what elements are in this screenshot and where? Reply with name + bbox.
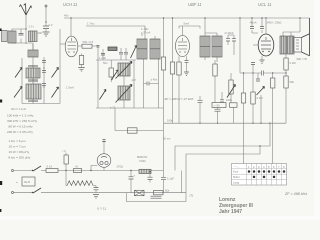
earth branch [45, 7, 47, 32]
svg-text:400: 400 [38, 31, 43, 35]
coil antenna secondary [29, 31, 38, 42]
svg-text:30n ± 1·1mh: 30n ± 1·1mh [11, 107, 27, 111]
node dots tuning [21, 67, 22, 68]
psu outer enclosure [127, 193, 187, 202]
wire tube1 cathode [81, 54, 83, 68]
capacitor 100n [221, 92, 223, 103]
svg-text:—→: —→ [234, 166, 240, 169]
RF coil L1 top [28, 50, 38, 57]
psu inner vertical [181, 171, 183, 193]
wire antenna lead [25, 15, 27, 29]
ground cathode [78, 68, 84, 72]
capacitor antenna series [19, 34, 24, 36]
svg-text:UCH 11: UCH 11 [63, 2, 77, 7]
trimmer arrow osc [131, 46, 137, 59]
capacitor 40n link [147, 82, 149, 86]
capacitor 1n b [42, 71, 46, 73]
switch mains lower [32, 192, 33, 193]
terminal mains upper [12, 170, 14, 172]
detector output branch [272, 73, 274, 164]
resistor cathode [79, 56, 83, 65]
wire osc left [97, 60, 99, 108]
svg-text:Lang: Lang [233, 180, 239, 184]
svg-text:8000/7Ω: 8000/7Ω [137, 155, 147, 159]
oscillator coil Lb [118, 86, 130, 100]
svg-text:80 W = 0·15 mHy: 80 W = 0·15 mHy [9, 125, 34, 129]
core marks L2 [28, 66, 38, 81]
svg-text:± 27mA: ± 27mA [141, 31, 150, 35]
svg-text:1,1µF: 1,1µF [167, 177, 174, 181]
svg-text:2·3: 2·3 [49, 23, 53, 27]
svg-text:240V / 23kΩ: 240V / 23kΩ [267, 21, 282, 25]
resistor osc grid [109, 68, 113, 77]
svg-text:UCL 11: UCL 11 [258, 2, 272, 7]
wire anode bus y18 [64, 17, 310, 19]
wire AVC y73 [240, 72, 286, 74]
svg-text:48mA: 48mA [250, 21, 257, 25]
RF coil L3 [26, 84, 41, 99]
speaker [294, 18, 310, 56]
fuse 0.1A [46, 169, 58, 173]
ground mains [93, 195, 99, 199]
choke field coil [139, 169, 151, 173]
nested link bus [115, 108, 164, 131]
B+ rail x286 [285, 54, 287, 123]
tube U2 UBF11 [176, 35, 190, 56]
antenna [20, 4, 32, 16]
wire mains upper [14, 170, 164, 172]
core marks L3 [28, 82, 38, 102]
IF transformer 2 b [212, 36, 222, 57]
svg-text:100 kHz = 1·2 mHy: 100 kHz = 1·2 mHy [7, 114, 34, 118]
resistor rail163 [161, 57, 165, 70]
wire coupling loop [12, 29, 33, 50]
wire IF2 top [204, 18, 206, 36]
wire osc bottom bus [96, 107, 164, 109]
wire tuning right [43, 57, 45, 104]
svg-text:0·2M: 0·2M [290, 61, 297, 65]
svg-text:500 / 2·5: 500 / 2·5 [83, 40, 94, 44]
svg-text:Mittel: Mittel [233, 175, 240, 179]
wire tube1 anode right [78, 45, 98, 47]
svg-text:(7): (7) [190, 194, 194, 198]
IF transformer 1 b [150, 39, 160, 59]
svg-text:≈: ≈ [16, 181, 18, 185]
wire IF1 stubs [142, 34, 155, 40]
wire IF1 secondary down a [143, 59, 145, 108]
wire tube3 anode [265, 18, 267, 34]
wire [32, 44, 34, 104]
capacitor 3nF branch [199, 96, 201, 123]
svg-text:0·1A: 0·1A [47, 165, 53, 169]
wire lamp branch [91, 166, 97, 171]
box voltage selector [22, 177, 35, 186]
svg-text:10 m = 7 µm: 10 m = 7 µm [9, 145, 27, 149]
svg-text:16 W = 88 µHy: 16 W = 88 µHy [9, 150, 30, 154]
core arrow La [116, 62, 133, 79]
wire tube2 anode top [182, 26, 184, 36]
trimmer arrow right 2 [52, 87, 59, 98]
switch contact mid [112, 70, 118, 79]
capacitor screen b [261, 18, 263, 33]
svg-text:8 km = 200 µHy: 8 km = 200 µHy [9, 156, 31, 160]
svg-text:5mA: 5mA [184, 22, 190, 26]
band switch table [232, 164, 287, 186]
svg-text:1·7mc: 1·7mc [87, 22, 95, 26]
node dots bus123 [252, 123, 253, 124]
svg-text:⊃ 50: ⊃ 50 [214, 104, 220, 108]
capacitor AVC series [262, 71, 264, 76]
resistor 500 [82, 44, 92, 48]
capacitor electrolytic a [130, 171, 132, 193]
capacitor tube2 bypass [186, 56, 188, 60]
svg-text:720Ω: 720Ω [139, 159, 146, 163]
wire lamp top [103, 140, 105, 171]
resistor tube2 cathode [177, 62, 181, 75]
connector box left edge [2, 31, 8, 42]
resistor B+ upper [284, 58, 288, 70]
svg-text:100n: 100n [226, 98, 232, 102]
capacitor screen a [252, 18, 258, 33]
oscillator coil La [118, 63, 130, 76]
wire left rail x60 [59, 29, 61, 104]
resistor diode load [251, 92, 255, 104]
wire IF2 stubs [205, 57, 217, 62]
capacitor 1n a [42, 61, 46, 63]
svg-text:ZF = 468 kHz: ZF = 468 kHz [284, 192, 307, 196]
coil antenna primary [8, 31, 16, 43]
trimmer arrow right 1 [52, 68, 59, 78]
ground bus y123 [164, 122, 287, 124]
node AVC [252, 72, 253, 73]
capacitor det [257, 73, 259, 79]
svg-text:270Ω: 270Ω [117, 164, 124, 168]
IF transformer 2 a [200, 36, 210, 57]
svg-text:2×10nF: 2×10nF [225, 31, 235, 35]
wire osc right [124, 60, 134, 108]
svg-text:900 / 7Ω: 900 / 7Ω [297, 57, 307, 61]
resistor 960 box X [135, 190, 145, 195]
resistor rail172 [170, 62, 174, 74]
table dots row Kurz [248, 170, 286, 173]
node antenna tap [25, 28, 26, 29]
RF coil L2 [26, 68, 40, 78]
svg-text:Kurz: Kurz [233, 170, 239, 174]
resistor 2 ohm [154, 191, 164, 195]
resistor osc dark [108, 47, 117, 51]
svg-text:160n: 160n [167, 119, 173, 123]
IF transformer 1 a [137, 39, 147, 59]
AVC rail x240 [239, 18, 241, 73]
capacitor series bottom [217, 108, 219, 124]
wire tuning left [21, 58, 23, 104]
svg-text:0·1M: 0·1M [257, 96, 264, 100]
component box pot bottom [230, 103, 238, 108]
svg-text:±E·B: ±E·B [24, 180, 30, 184]
rail x163 [163, 18, 165, 193]
resistor dropper zigzag [67, 181, 93, 186]
wire bottom bus left [22, 103, 60, 105]
wire tube1 anode drop [70, 18, 72, 37]
svg-text:200 W = 2·55 mHy: 200 W = 2·55 mHy [7, 130, 33, 134]
svg-text:≈ δ: ≈ δ [62, 149, 66, 153]
svg-text:± 40n: ± 40n [151, 78, 158, 82]
svg-text:U Y 11: U Y 11 [97, 207, 106, 211]
component box 50u [212, 103, 226, 108]
resistor band branch [243, 73, 245, 164]
wire tube1 grid [60, 43, 65, 45]
diode load branch [252, 65, 254, 124]
capacitor osc b [101, 54, 105, 56]
detector resistor [214, 60, 216, 103]
ground tube2 [184, 72, 189, 76]
wire B+ loop 2 [186, 146, 260, 197]
wire IF1 secondary down b [158, 59, 160, 108]
switch mains upper [32, 170, 33, 171]
resistor B+ lower [284, 76, 288, 88]
core arrow Lb [116, 85, 133, 103]
tube U1 UCH11 [65, 36, 78, 57]
svg-text:1 km = 6 µm: 1 km = 6 µm [9, 139, 27, 143]
capacitor mains [95, 186, 97, 193]
oscillator row wire [96, 47, 136, 61]
trimmer arrow left 1 [15, 68, 22, 78]
svg-text:1·7Mc: 1·7Mc [141, 27, 149, 31]
measure bracket 5mA [179, 26, 200, 29]
trimmer arrow padder [100, 90, 107, 100]
table dots row Mittel [253, 176, 276, 179]
potentiometer volume [230, 73, 232, 103]
svg-text:1·2nF: 1·2nF [99, 56, 106, 60]
capacitor electrolytic b [149, 172, 151, 183]
svg-text:2·3 t: 2·3 t [29, 25, 35, 29]
resistor link box [128, 128, 138, 133]
svg-text:50k: 50k [290, 80, 295, 84]
svg-text:δΩr: δΩr [165, 189, 170, 193]
wire tube2 cathode [178, 56, 180, 123]
svg-text:Jahr 1947: Jahr 1947 [219, 209, 242, 215]
wire transformer feed [283, 18, 300, 36]
wire mains lower [14, 192, 187, 194]
wire grid bus y26 [86, 26, 145, 39]
ground earth [43, 32, 50, 36]
wire tube3 cathode [261, 56, 263, 60]
trimmer arrow left 2 [14, 87, 22, 98]
capacitor osc a [97, 46, 100, 48]
scan artifact edge marks [0, 29, 2, 32]
svg-text:UBF 11: UBF 11 [188, 2, 202, 7]
wire tube3 grid [253, 44, 258, 46]
rail x172 [172, 18, 174, 123]
svg-text:ZF = 468 W = 27 kΩb: ZF = 468 W = 27 kΩb [164, 97, 194, 101]
node earth [45, 21, 46, 22]
terminal mains lower [12, 192, 14, 194]
output transformer [280, 36, 287, 54]
tube U3 UCL11 [258, 34, 274, 56]
pot detector arrow [257, 87, 265, 96]
svg-text:50 mc: 50 mc [163, 137, 171, 141]
svg-text:1·5mA: 1·5mA [66, 86, 74, 90]
capacitor 1n c [42, 84, 46, 86]
capacitor pair osc [119, 52, 128, 54]
capacitor earth [43, 26, 49, 29]
svg-text:300 kHz = 230·5 mHy: 300 kHz = 230·5 mHy [7, 119, 37, 123]
lamp dial [97, 154, 111, 168]
svg-text:Lorenz: Lorenz [219, 197, 236, 203]
svg-text:Zwergsuper III: Zwergsuper III [219, 203, 254, 209]
svg-text:40n: 40n [64, 14, 69, 18]
wire B+ loop 1 [175, 123, 270, 170]
ground tube3 [260, 60, 265, 64]
terminal earth top [45, 5, 47, 7]
svg-text:50n: 50n [103, 61, 108, 65]
capacitor 1.1uF psu [161, 177, 166, 179]
resistor branch up [65, 153, 67, 171]
resistor M series [74, 169, 82, 173]
